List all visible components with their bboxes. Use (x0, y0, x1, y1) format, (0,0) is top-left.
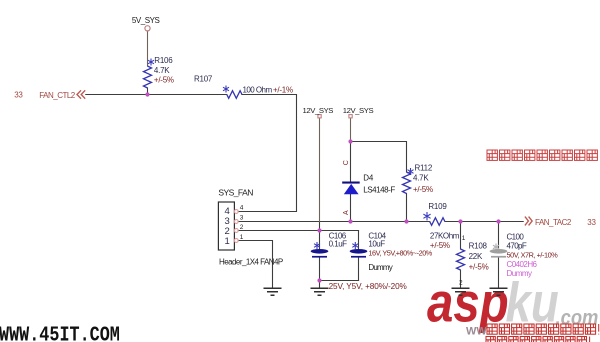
svg-text:5V_SYS: 5V_SYS (132, 16, 160, 25)
svg-text:Header_1X4 FAN4P: Header_1X4 FAN4P (219, 258, 283, 267)
svg-text:50V, X7R, +/-10%: 50V, X7R, +/-10% (507, 251, 559, 260)
svg-text:A: A (343, 210, 350, 215)
svg-text:R108: R108 (469, 242, 488, 251)
svg-text:1: 1 (240, 234, 244, 241)
svg-text:2: 2 (240, 224, 244, 231)
svg-text:WW: WW (466, 326, 487, 338)
svg-text:D4: D4 (363, 174, 374, 183)
svg-text:25V, Y5V, +80%/-20%: 25V, Y5V, +80%/-20% (329, 282, 407, 291)
svg-text:2: 2 (459, 280, 463, 287)
svg-text:4: 4 (240, 204, 244, 211)
svg-text:33: 33 (587, 218, 596, 227)
svg-text:R112: R112 (415, 164, 433, 173)
svg-text:+/-5%: +/-5% (430, 241, 450, 250)
svg-text:22K: 22K (469, 252, 483, 261)
svg-text:100 Ohm: 100 Ohm (243, 86, 273, 95)
svg-text:C0402H6: C0402H6 (507, 260, 538, 269)
svg-text:LS4148-F: LS4148-F (363, 186, 395, 195)
svg-text:12V_SYS: 12V_SYS (303, 106, 334, 115)
svg-text:16V, Y5V,+80%~-20%: 16V, Y5V,+80%~-20% (368, 249, 432, 258)
svg-text:4.7K: 4.7K (413, 173, 429, 182)
svg-text:R106: R106 (154, 56, 173, 65)
svg-text:27KOhm: 27KOhm (430, 231, 460, 240)
svg-text:C100: C100 (507, 232, 525, 241)
svg-text:1: 1 (225, 236, 230, 247)
svg-text:12V_SYS: 12V_SYS (343, 106, 374, 115)
svg-text:+/-5%: +/-5% (413, 185, 433, 194)
svg-text:C: C (343, 160, 350, 165)
svg-text:+/-1%: +/-1% (273, 86, 293, 95)
svg-text:1: 1 (462, 235, 466, 242)
svg-text:+/-5%: +/-5% (469, 263, 489, 272)
svg-text:3: 3 (240, 214, 244, 221)
svg-text:R109: R109 (428, 202, 447, 211)
svg-text:FAN_CTL2: FAN_CTL2 (39, 91, 76, 100)
svg-text:10uF: 10uF (368, 240, 385, 249)
svg-text:+/-5%: +/-5% (154, 76, 174, 85)
svg-text:Dummy: Dummy (507, 269, 533, 278)
svg-text:SYS_FAN: SYS_FAN (218, 187, 253, 197)
svg-text:.com: .com (556, 306, 599, 329)
svg-text:FAN_TAC2: FAN_TAC2 (535, 218, 572, 227)
svg-text:R107: R107 (194, 75, 213, 84)
svg-text:33: 33 (14, 91, 23, 100)
svg-text:WWW.45IT.COM: WWW.45IT.COM (0, 323, 120, 342)
svg-text:470pF: 470pF (507, 242, 527, 251)
svg-text:4.7K: 4.7K (154, 66, 170, 75)
svg-text:Dummy: Dummy (368, 263, 392, 272)
svg-text:0.1uF: 0.1uF (329, 240, 348, 249)
